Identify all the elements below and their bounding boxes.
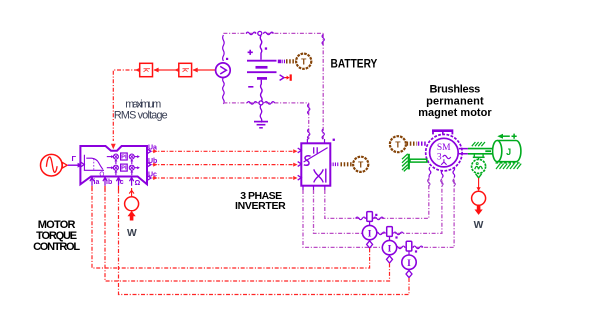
ground (254, 105, 268, 128)
wire: K2 to K1 (154, 68, 180, 73)
svg-text:permanent: permanent (426, 95, 484, 107)
svg-text:SM: SM (437, 143, 451, 153)
svg-text:RMS voltage: RMS voltage (114, 109, 168, 121)
svg-text:ia: ia (94, 179, 100, 186)
svg-text:T: T (358, 160, 364, 170)
wire Ua (153, 149, 298, 153)
anchor hatch above shaft (472, 142, 485, 146)
svg-text:Ω: Ω (99, 171, 104, 178)
controller torque-speed graph (84, 155, 104, 171)
wire Uc (153, 176, 298, 180)
sine source (torque command) (41, 154, 83, 176)
wire phase a (303, 178, 455, 249)
controller PI channel row 2 (107, 164, 140, 175)
stator mount (fixed anchor) (402, 154, 427, 172)
node: battery negative bus (259, 101, 263, 105)
controller block U1 (motor torque control) (80, 146, 147, 184)
svg-text:INVERTER: INVERTER (235, 200, 286, 212)
inverter U2 (298, 139, 335, 191)
wire: battery bus bottom (223, 102, 308, 105)
wire: battery bus top (223, 32, 323, 35)
svg-text:CONTROL: CONTROL (33, 241, 80, 253)
wire speed sensor to meter W2 (477, 178, 481, 191)
current sensor S1 (362, 212, 377, 248)
svg-text:Ω: Ω (135, 180, 141, 187)
battery B1 (247, 36, 277, 102)
wire: DC+ link battery to inverter (322, 33, 324, 139)
link: T3 to motor housing (407, 142, 426, 146)
wire: DC- link battery to inverter (308, 103, 310, 139)
svg-text:Brushless: Brushless (430, 84, 481, 96)
meter T2 (inverter) (353, 157, 368, 172)
svg-text:W: W (474, 220, 484, 231)
meter T1 (battery) (296, 54, 311, 69)
labels ia ib ic omega pins (94, 179, 141, 187)
current sensor S2 (382, 227, 397, 263)
svg-text:k: k (141, 68, 151, 73)
controller PI channel row 1 (107, 153, 140, 164)
svg-text:Γ: Γ (72, 154, 77, 163)
label MOTOR TORQUE CONTROL (33, 219, 80, 253)
svg-text:T: T (301, 57, 307, 67)
svg-text:J: J (506, 147, 511, 157)
svg-text:I: I (407, 259, 411, 269)
gain block K2 (179, 63, 198, 76)
wire ia feedback (92, 188, 370, 268)
wire Ub (153, 163, 298, 167)
motor M1 (brushless PM) (426, 131, 462, 178)
wire ic feedback (119, 188, 410, 295)
wire ib feedback (105, 188, 390, 281)
wire phase b (314, 178, 444, 235)
wire phase c (inverter right pin to motor) (325, 178, 430, 220)
svg-text:BATTERY: BATTERY (331, 59, 378, 71)
labels Ua Ub Uc (148, 145, 157, 179)
svg-text:T: T (395, 140, 401, 150)
svg-text:k: k (180, 68, 190, 73)
pin arrows ia ib ic omega (90, 177, 134, 190)
gain block K1 (140, 63, 159, 76)
link: inverter to meter T2 (330, 163, 352, 167)
voltmeter V1 on battery bus (216, 35, 231, 104)
speed sensor (omega, on shaft) (472, 154, 486, 178)
label 3 PHASE INVERTER (235, 190, 286, 212)
meter W1 (speed input, left) (125, 188, 139, 221)
load torque arrow (497, 134, 516, 139)
svg-text:W: W (127, 228, 137, 239)
current sensor S3 (402, 241, 417, 277)
wire: RMS reference into controller top (111, 68, 140, 150)
shaft motor to load (459, 149, 493, 154)
link: battery voltage to meter T1 (278, 60, 296, 64)
meter W2 (speed, right) (472, 191, 486, 215)
label arrow (battery output marker) (280, 74, 292, 80)
svg-text:3: 3 (437, 153, 442, 163)
svg-text:magnet motor: magnet motor (418, 107, 492, 119)
svg-text:PI: PI (121, 155, 127, 161)
label maximum RMS voltage (114, 99, 168, 122)
controller output pins Ua Ub Uc (147, 149, 151, 181)
label Brushless permanent magnet motor (418, 84, 492, 120)
mechanical ground under load (496, 163, 522, 169)
load inertia J (493, 141, 521, 162)
svg-text:I: I (388, 244, 392, 254)
wire: voltmeter to K2 (193, 69, 216, 71)
svg-text:I: I (368, 229, 372, 239)
node: battery positive bus (258, 31, 262, 35)
svg-text:PI: PI (121, 166, 127, 172)
meter T3 (shaft torque) (390, 136, 406, 152)
